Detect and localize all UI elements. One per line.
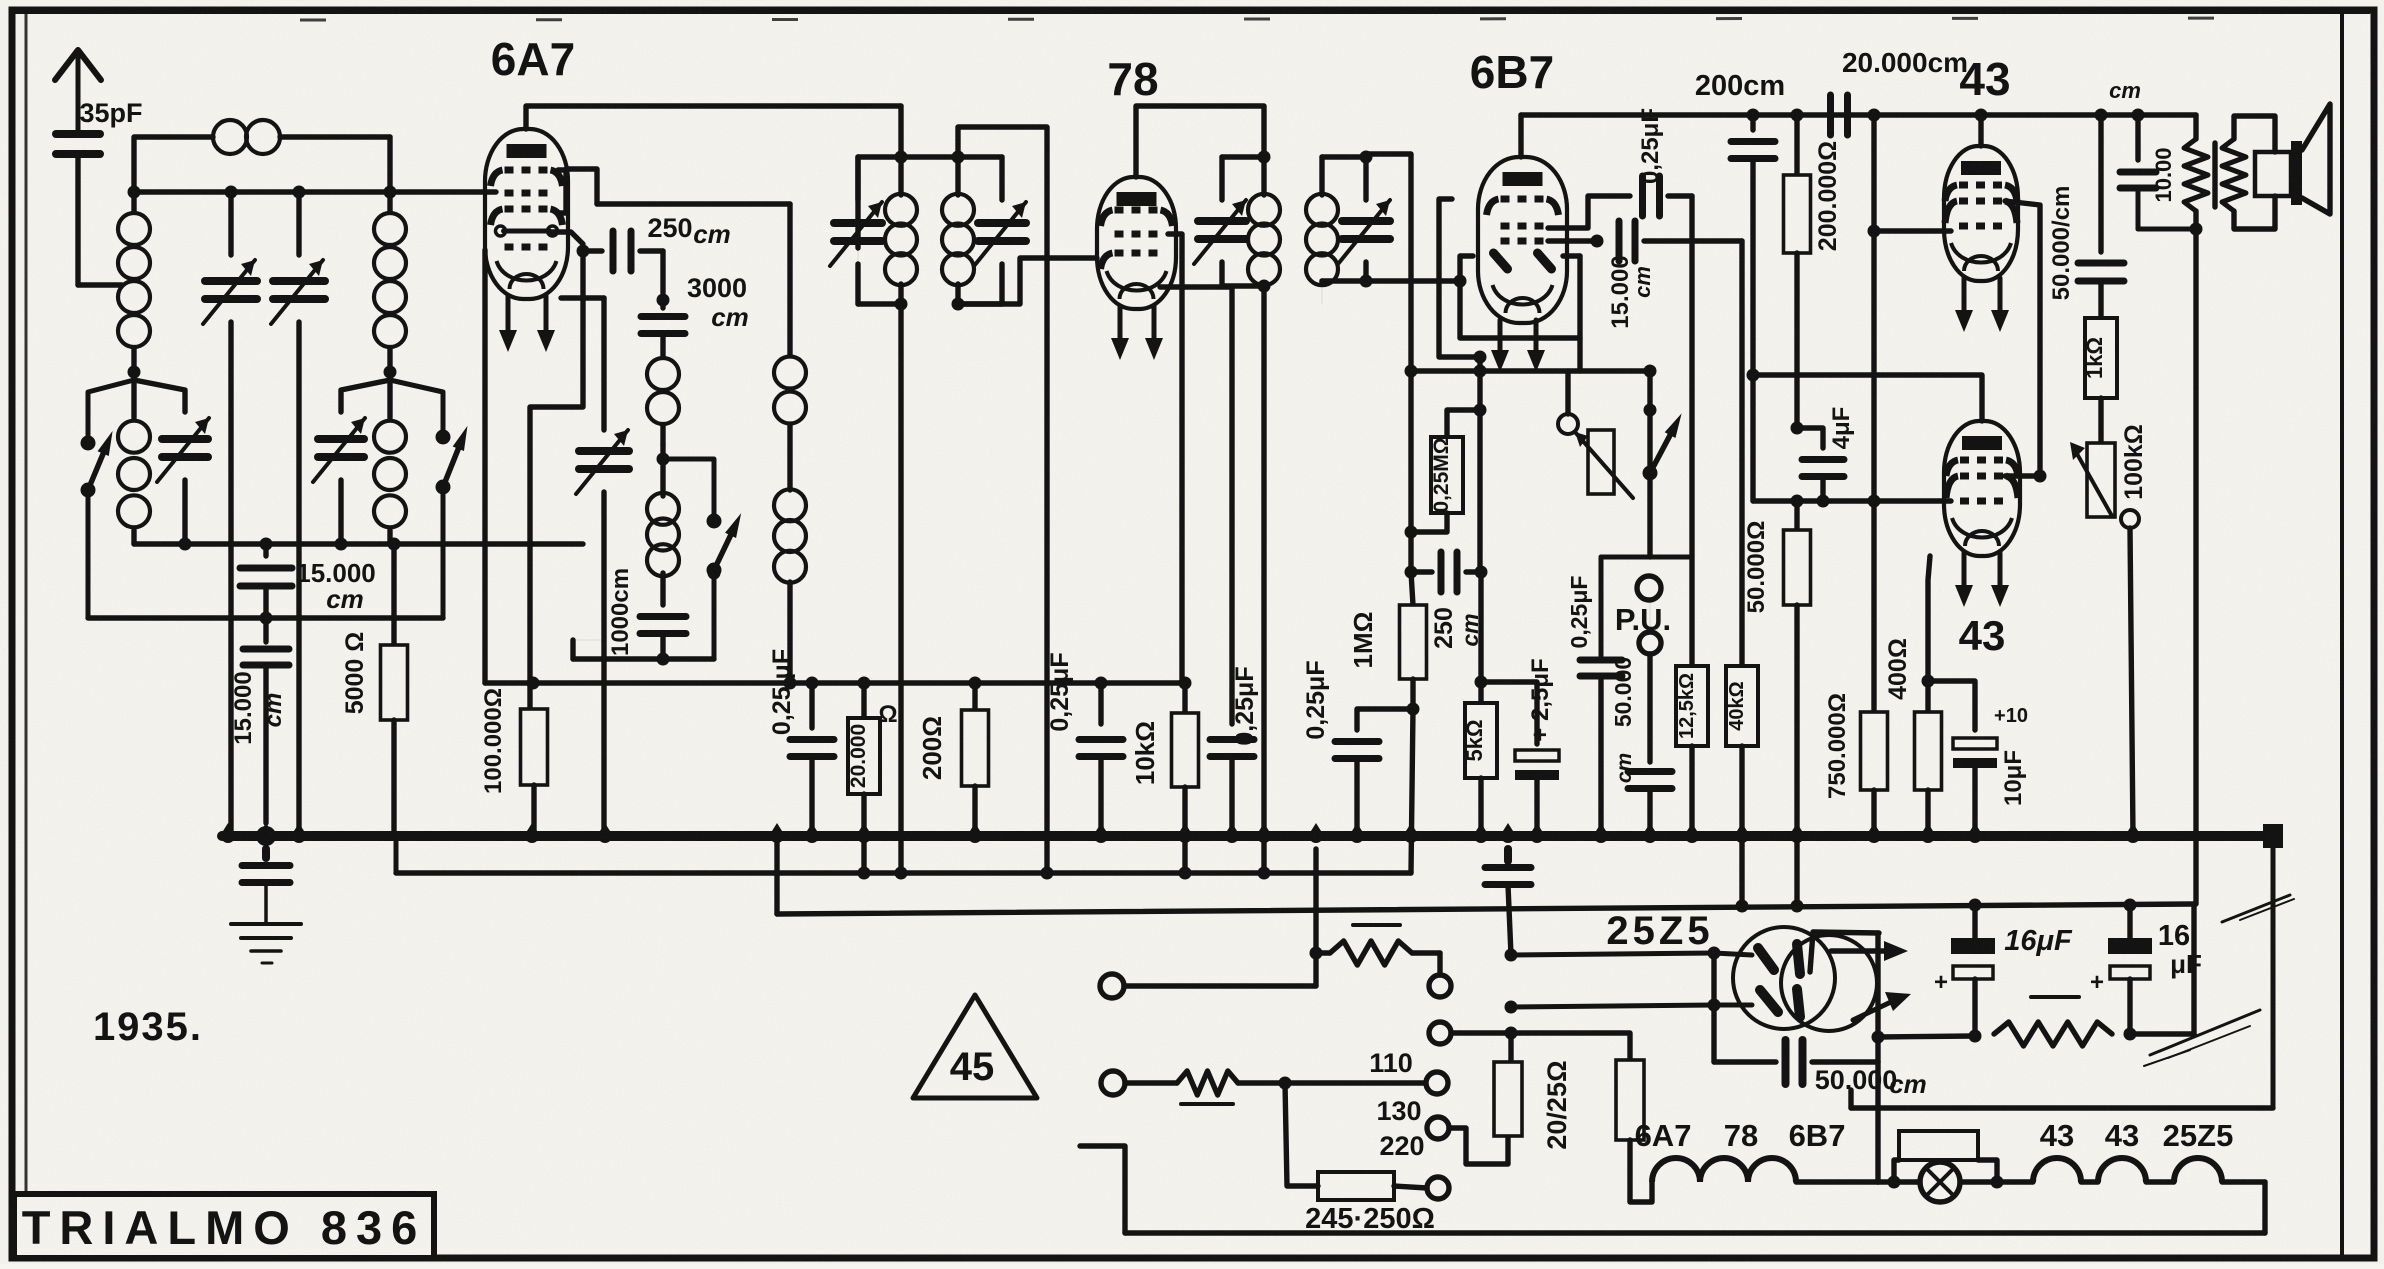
label 43 first <box>1959 53 2010 105</box>
node osc tap <box>657 445 670 466</box>
heater chain filaments right <box>1997 1158 2265 1182</box>
bus end junction <box>2263 824 2283 848</box>
wire antenna tap <box>78 282 122 287</box>
capacitor 50.000cm rectifier <box>1714 1005 1927 1099</box>
wire 25Z5 cathode arrow 2 <box>1853 992 1911 1020</box>
diode box 6B7 <box>1460 256 1580 371</box>
wire top link left <box>134 137 213 192</box>
tube 6A7 <box>485 129 568 299</box>
wire 43 second grid drop <box>1871 231 1876 501</box>
transformer output primary <box>2184 115 2208 236</box>
label 78 heater <box>1724 1118 1758 1153</box>
wire IF1 frame <box>858 106 956 304</box>
terminal P.U. box <box>1601 557 1692 660</box>
switch S3 oscillator <box>663 459 741 659</box>
wire 25Z5 heater top <box>1511 947 1752 960</box>
wire 43 grids link <box>2005 201 2047 483</box>
wire rail1 <box>485 677 1192 690</box>
variable capacitor C2 tuning <box>271 192 325 836</box>
wire 40k drop <box>1739 241 1744 666</box>
speaker <box>2255 104 2330 214</box>
node C right tank top <box>384 366 397 379</box>
capacitor 15.000cm upper <box>240 544 376 618</box>
wire top link right <box>387 137 392 192</box>
resistor 5000 ohm <box>341 544 408 836</box>
capacitor 15.000cm lower <box>230 618 289 823</box>
wire filter out <box>2130 904 2194 1034</box>
title box <box>14 1194 434 1258</box>
wire OT bottom drop <box>2193 229 2198 904</box>
tube 25Z5 rectifier <box>1733 927 1879 1031</box>
label 43 heater first <box>2040 1118 2074 1153</box>
wire diode load vertical <box>1474 357 1487 572</box>
label 6A7 heater <box>1635 1118 1692 1153</box>
node IF1 top <box>895 151 908 164</box>
wire IF1 sec bottom to 78 grid <box>958 258 1097 304</box>
pen scratch upper <box>2222 895 2294 922</box>
wire C1 C2 top taps <box>225 186 306 199</box>
wire 43 second plate <box>1753 375 1982 421</box>
resistor 40k ohm boxed <box>1726 666 1758 903</box>
wire rail2 <box>396 867 1411 880</box>
label 6A7 <box>491 33 575 85</box>
wire main bus <box>222 831 2273 841</box>
capacitor 0,25uF 78 cathode <box>1210 666 1259 836</box>
wire IF2 sec top to AVC line <box>1366 154 1411 371</box>
bus junctions <box>218 823 2143 846</box>
coil L5 osc grid upper <box>647 358 679 445</box>
capacitor 1000cm <box>607 568 686 659</box>
capacitor 16uF first <box>1934 902 2073 1036</box>
wire IF2 sec bottom to 6B7 <box>1366 275 1467 288</box>
wire 6A7 cathode drop <box>530 251 583 707</box>
variable capacitor C3 padding left <box>134 380 209 544</box>
node mains lower <box>1279 1077 1426 1090</box>
heater chain filaments left <box>1652 1158 1878 1182</box>
resistor mains zigzag lower <box>1177 1071 1285 1104</box>
filament arrows 43 first <box>1955 278 2009 332</box>
node IF2 top <box>1258 151 1271 164</box>
wire return rail <box>88 612 443 625</box>
resistor 5k ohm boxed <box>1462 572 1497 836</box>
coil L2 RF secondary <box>374 192 406 372</box>
capacitor 3000cm <box>641 273 749 357</box>
label 6B7 heater <box>1789 1118 1846 1153</box>
node A grid wire <box>128 186 497 199</box>
wire bottom return <box>1080 1146 2265 1233</box>
resistor 200.000 ohm <box>1784 109 1843 429</box>
wire bus end drop <box>1851 836 2273 1108</box>
wire zigzag tap to bus <box>1313 849 1318 953</box>
wire top rail right <box>1521 112 2196 117</box>
wire 6A7 screen right <box>558 169 597 213</box>
switch S1 left <box>81 380 135 618</box>
wire 6A7 top cap <box>526 106 901 129</box>
wire 1M bottom to rail2 <box>1411 709 1413 873</box>
variable capacitor C4 padding right <box>313 380 390 544</box>
wire pri bottom to rail3 <box>767 823 787 914</box>
label 25Z5 <box>1606 909 1713 953</box>
capacitor 10uF electrolytic <box>1928 681 2028 836</box>
wire 6B7 top cap <box>1518 115 1523 157</box>
coil L7 osc anode <box>774 204 806 683</box>
resistor 245-250 ohm <box>1305 1172 1435 1235</box>
label 43 second <box>1959 612 2006 659</box>
resistor 0,25M ohm boxed <box>1405 410 1481 539</box>
capacitor 50.000cm tone <box>2048 109 2124 319</box>
switch S2 right <box>390 380 467 618</box>
wire 6B7 plate cap row <box>1548 196 1630 228</box>
switch S4 mains <box>1643 371 1682 557</box>
coil L4 wave band right <box>374 372 406 544</box>
capacitor 250cm AVC <box>1405 532 1488 649</box>
label 6B7 <box>1470 46 1554 98</box>
variable capacitor C1 tuning <box>203 192 257 836</box>
resistor 1M ohm <box>1348 572 1427 716</box>
wire IF1 sec frame <box>952 151 1003 311</box>
wire 25Z5 heater link <box>1708 953 1721 1012</box>
terminal selector top <box>1429 1022 1511 1044</box>
terminal mains lower <box>1101 1071 1177 1095</box>
resistor 400 ohm <box>1884 638 1942 836</box>
resistor 750.000 ohm <box>1824 501 1888 836</box>
ground <box>231 924 301 963</box>
node selector <box>1505 1027 1518 1040</box>
filament arrows 6A7 <box>499 296 555 352</box>
tube 6B7 <box>1478 157 1567 323</box>
resistor 10k ohm <box>1130 683 1199 873</box>
resistor filter choke <box>1994 997 2112 1046</box>
resistor ballast <box>1894 1131 2004 1189</box>
wire 25Z5 heater bottom <box>1505 1001 1753 1014</box>
wire HT plus <box>1878 1030 1982 1043</box>
resistor 100.000 ohm cathode <box>480 677 548 837</box>
capacitor 250cm osc grid <box>583 213 731 293</box>
label 200cm <box>1695 70 1785 102</box>
wire 6A7 screen to padder <box>561 295 604 300</box>
capacitor 10.000 speaker <box>2109 78 2196 229</box>
capacitor 0,25uF PU <box>1566 576 1622 836</box>
terminal 130 <box>1376 1096 1449 1139</box>
node B left tank top <box>128 366 141 379</box>
capacitor 0,25uF AF coupling <box>1302 660 1413 836</box>
capacitor 4uF <box>1797 407 1855 501</box>
wire 25Z5 cathode arrow <box>1831 941 1908 961</box>
wire 6A7 cathode <box>549 232 590 258</box>
wire bus drop to heater node <box>1485 849 1531 955</box>
label 78 <box>1107 53 1158 105</box>
variable capacitor C8 IF2 pri <box>1194 157 1264 286</box>
capacitor 16uF second <box>2090 905 2202 1041</box>
capacitor 35pF antenna series <box>56 98 143 285</box>
wire IF1 sec top jog <box>958 127 1047 873</box>
wire 43 first top <box>1975 109 1988 147</box>
antenna <box>55 50 101 134</box>
resistor 20.000 ohm boxed <box>847 683 898 873</box>
capacitor 0,25uF to output <box>1637 108 1692 216</box>
filament arrows 6B7 <box>1491 320 1545 372</box>
wire IF1 pri bottom drop <box>898 304 903 873</box>
coil L6 osc grid lower <box>647 459 679 605</box>
wire 130 jog <box>1449 1128 1508 1164</box>
label 20.000cm <box>1842 47 1968 78</box>
wire osc top <box>597 201 790 206</box>
wire 5k node to electrolytic <box>1475 676 1538 745</box>
wire rail2 left end <box>394 836 399 873</box>
capacitor 200cm <box>1731 109 1775 502</box>
wire IF2 pri bottom drop <box>1261 286 1266 873</box>
wire AVC chain vertical <box>1408 371 1413 532</box>
pen scratch lower <box>2144 1010 2260 1066</box>
capacitor 20.000cm coupling <box>1831 95 1848 135</box>
node osc grid <box>657 294 670 307</box>
wire 43 cathode drop <box>1922 556 1935 688</box>
resistor mains zigzag upper <box>1310 925 1452 997</box>
terminal mains upper <box>1100 974 1316 998</box>
tube 78 <box>1097 177 1176 309</box>
wire 6A7 suppressor drop <box>482 250 487 683</box>
coil L8 IF1 primary <box>885 157 917 311</box>
wire diode load to 250cm <box>0 0 1 1</box>
wire to 245 resistor <box>1285 1083 1318 1186</box>
potentiometer 100k ohm <box>2070 424 2148 836</box>
resistor 1k ohm boxed <box>2082 318 2117 443</box>
capacitor bus to ground <box>242 849 290 922</box>
label 25Z5 heater <box>2163 1118 2234 1153</box>
capacitor 2,5uF electrolytic <box>1515 658 1559 836</box>
transformer core <box>2212 143 2217 207</box>
wire rail3 <box>777 899 2194 915</box>
variable capacitor C9 IF2 sec <box>1322 151 1390 288</box>
wire rectifier heater drop <box>1875 1062 1880 1182</box>
wire 78 cathode drop <box>1160 287 1232 724</box>
wire 78 top cap <box>1136 106 1264 177</box>
capacitor 0,25uF osc <box>768 649 834 836</box>
wire 6B7 2nd grid drop <box>1439 199 1480 357</box>
resistor 20/25 ohm <box>1511 1033 1644 1150</box>
wire band bottom rail <box>134 538 583 551</box>
coil L9 IF1 secondary <box>942 157 974 304</box>
resistor mains dropping <box>1494 1033 1522 1136</box>
label 43 heater second <box>2105 1118 2139 1153</box>
coil L11 IF2 secondary <box>1306 157 1338 304</box>
wire 12,5k drop <box>1689 196 1694 666</box>
variable capacitor C7 IF1 sec <box>974 157 1026 304</box>
terminal 110 <box>1369 1048 1448 1094</box>
wire 6B7 diode row <box>1548 235 1604 248</box>
variable capacitor C5 osc padder <box>573 298 629 836</box>
variable capacitor C6 IF1 pri <box>830 157 901 304</box>
resistor 12,5k ohm boxed <box>1676 666 1708 836</box>
potentiometer volume <box>1558 371 1633 498</box>
filament arrows 43 second <box>1955 553 2009 607</box>
terminal 220 resistor end <box>1379 1131 1449 1199</box>
wire AVC node <box>1405 365 1657 378</box>
coupling coil antenna <box>213 120 390 154</box>
label 1935 <box>93 1005 203 1049</box>
resistor 200 ohm <box>917 683 989 836</box>
wire 25Z5 right drop <box>1872 933 1885 1062</box>
resistor 50.000 ohm <box>1743 501 1811 903</box>
tube 43 first <box>1944 146 2018 281</box>
coil L1 antenna primary <box>118 192 150 372</box>
lamp dial <box>1916 1162 1997 1202</box>
wire heater chain end <box>2262 1182 2267 1233</box>
wire grid2 row <box>1753 495 1951 508</box>
filament arrows 78 <box>1111 306 1163 360</box>
tube 43 second <box>1944 421 2020 556</box>
wire 43 grid feed <box>1868 109 1952 238</box>
coil L3 wave band left <box>118 372 150 544</box>
capacitor 15.000cm <box>1607 221 1742 329</box>
wire heater chain start <box>1630 1140 1652 1202</box>
transformer output secondary <box>2222 116 2275 229</box>
node osc bottom <box>573 640 714 666</box>
wire 78 screen drop <box>1168 234 1182 683</box>
node heater top <box>1505 949 1518 962</box>
capacitor 50.000cm PU <box>1610 654 1672 836</box>
wire heater chain mid <box>1878 1176 1916 1189</box>
coil L10 IF2 primary <box>1248 157 1280 293</box>
node 4uF <box>1791 422 1804 435</box>
capacitor 0,25uF 78 screen <box>1046 652 1123 836</box>
triangle 45 <box>913 995 1037 1098</box>
